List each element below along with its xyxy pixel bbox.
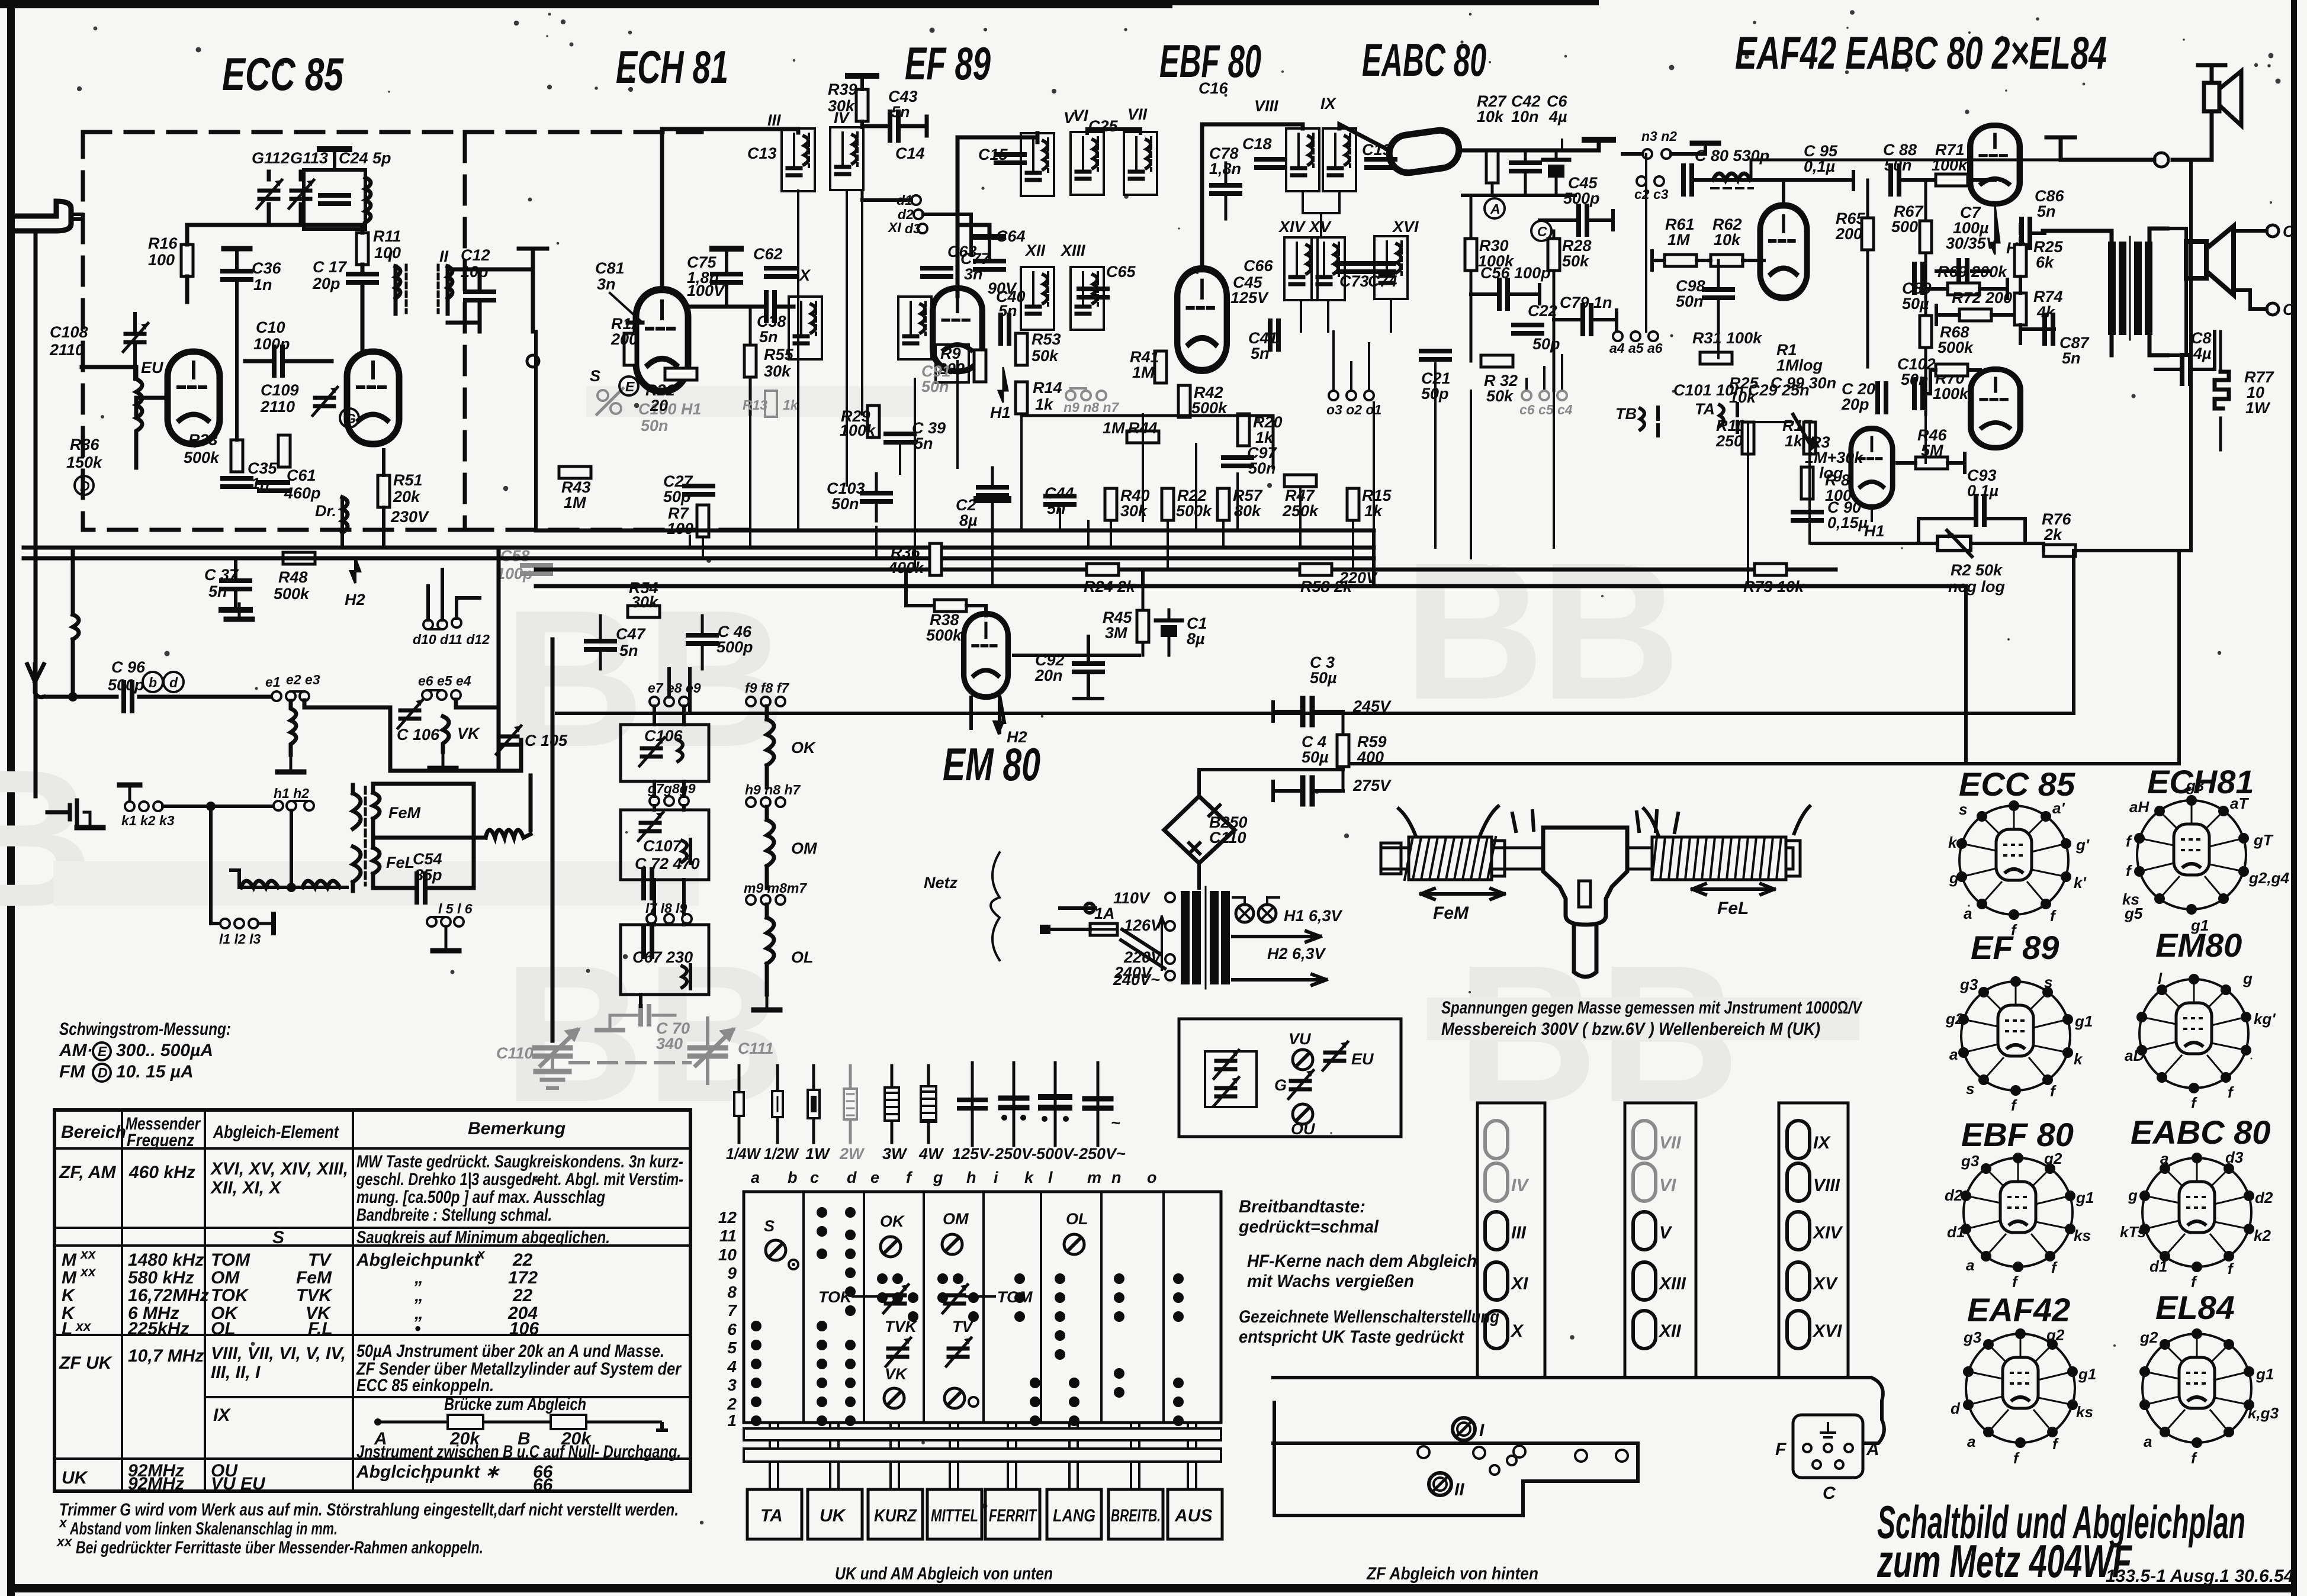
terminal C lower: [2267, 303, 2279, 315]
svg-text:C: C: [2283, 223, 2295, 240]
wire bus line3: [24, 556, 1374, 561]
resistor R16 100: [181, 244, 193, 276]
capacitor C75 1.8n feedthrough: [712, 274, 741, 282]
VU adjust box: [1179, 1019, 1401, 1137]
svg-text:UK: UK: [62, 1468, 89, 1488]
svg-text:100p: 100p: [496, 565, 533, 583]
svg-text:VIII: VIII: [1813, 1176, 1840, 1195]
legend resistor 1/2W: [776, 1066, 779, 1143]
arrow FeM: [1421, 889, 1504, 899]
svg-text:150k: 150k: [66, 453, 103, 471]
socket EL84: [2139, 1328, 2279, 1467]
svg-text:g2,g4: g2,g4: [2248, 869, 2289, 887]
svg-text:R11: R11: [373, 227, 401, 245]
svg-text:a: a: [2160, 1150, 2168, 1167]
svg-text:ks: ks: [2074, 1227, 2091, 1244]
svg-text:Brücke zum Abgleich: Brücke zum Abgleich: [444, 1395, 586, 1414]
lamp H1: [1236, 905, 1254, 922]
svg-text:g: g: [1949, 869, 1959, 887]
resistor R7 100: [697, 505, 709, 537]
svg-text:MITTEL: MITTEL: [931, 1506, 978, 1526]
svg-text:XII: XII: [1024, 242, 1046, 259]
legend capacitor 125V: [971, 1063, 974, 1145]
legend capacitor 250V: [1013, 1063, 1016, 1145]
svg-text:EU: EU: [141, 359, 164, 377]
svg-text:340: 340: [656, 1035, 683, 1053]
svg-text:C107: C107: [643, 837, 683, 855]
row numbers 12..1: [718, 1208, 738, 1430]
svg-text:2W: 2W: [839, 1145, 865, 1163]
svg-text:k1 k2 k3: k1 k2 k3: [121, 813, 175, 828]
wire input to tuner: [82, 367, 136, 379]
resistor R57 80k: [1217, 488, 1229, 520]
svg-text:Jnstrument zwischen B u.C auf: Jnstrument zwischen B u.C auf Null- Durc…: [356, 1442, 681, 1462]
legend resistor 1W: [812, 1066, 815, 1143]
svg-text:IX: IX: [1813, 1133, 1831, 1153]
capacitor C17 20p: [348, 274, 377, 282]
bank2 contact m9 m8 m7: [746, 895, 756, 905]
coil FeM on rod: [1399, 806, 1505, 880]
svg-text:mit Wachs vergießen: mit Wachs vergießen: [1247, 1272, 1414, 1291]
svg-text:OM: OM: [791, 839, 817, 857]
svg-text:OL: OL: [211, 1319, 236, 1338]
svg-text:R39: R39: [828, 81, 857, 98]
svg-text:E: E: [98, 1044, 107, 1059]
svg-text:100k: 100k: [840, 421, 876, 439]
IF can XI: [898, 297, 931, 359]
svg-text:g3: g3: [1961, 1152, 1980, 1170]
svg-text:VU EU: VU EU: [211, 1474, 266, 1494]
node C circled: [1531, 221, 1551, 241]
svg-text:250V~: 250V~: [1078, 1145, 1126, 1163]
svg-text:1M: 1M: [1667, 231, 1690, 249]
svg-text:5n: 5n: [914, 435, 933, 452]
capacitor C35 1n: [223, 478, 251, 487]
svg-text:C14: C14: [895, 144, 925, 162]
wire scribble up: [529, 776, 533, 830]
svg-text:225kHz: 225kHz: [127, 1319, 189, 1338]
svg-text:II: II: [439, 247, 449, 265]
svg-text:EAF42: EAF42: [1967, 1291, 2070, 1328]
svg-text:R73 10k: R73 10k: [1743, 578, 1805, 596]
svg-text:500p: 500p: [716, 638, 753, 656]
svg-text:g: g: [933, 1169, 943, 1186]
svg-text:g1: g1: [2255, 1365, 2274, 1383]
svg-text:TOM: TOM: [211, 1250, 250, 1270]
wire FeM loop: [373, 784, 486, 888]
svg-text:1M: 1M: [1103, 419, 1125, 437]
tube ECH81: [636, 289, 688, 391]
legend capacitor 500V: [1054, 1063, 1057, 1145]
capacitor C43 5n: [890, 112, 898, 140]
node H1 arrow: [1990, 205, 2000, 255]
svg-text:C: C: [1537, 224, 1547, 239]
coil antenna input: [73, 552, 79, 697]
svg-text:FeM: FeM: [1433, 903, 1469, 923]
transformer FeM FeL primary: [353, 785, 361, 891]
svg-text:30k: 30k: [828, 97, 856, 115]
svg-text:c6 c5 c4: c6 c5 c4: [1519, 402, 1573, 417]
svg-text:1k: 1k: [1035, 395, 1054, 413]
wire dashed top extension: [465, 130, 702, 134]
svg-text:2k: 2k: [2043, 526, 2063, 543]
svg-text:g2: g2: [1945, 1010, 1964, 1028]
svg-text:XIII: XIII: [1060, 242, 1085, 259]
contact e1 e2 e3: [272, 691, 281, 701]
svg-text:l: l: [2158, 970, 2163, 987]
svg-text:h1 h2: h1 h2: [274, 786, 309, 801]
svg-text:s: s: [1966, 1080, 1974, 1098]
capacitor C90 0.15u: [1793, 512, 1821, 520]
ground l6: [433, 935, 459, 951]
svg-text:C111: C111: [738, 1040, 774, 1057]
svg-text:C16: C16: [1199, 79, 1229, 97]
svg-text:C: C: [2283, 301, 2295, 318]
contact c2 c3: [1637, 176, 1646, 186]
svg-text:I: I: [388, 247, 393, 265]
svg-text:a: a: [1966, 1256, 1974, 1274]
svg-text:EBF 80: EBF 80: [1961, 1116, 2074, 1153]
svg-text:IX: IX: [213, 1405, 231, 1425]
svg-text:F: F: [1775, 1440, 1787, 1459]
svg-text:C12: C12: [461, 246, 490, 264]
svg-text:gT: gT: [2253, 831, 2274, 849]
svg-text:h9 h8 h7: h9 h8 h7: [745, 782, 801, 797]
svg-text:10k: 10k: [1729, 388, 1757, 406]
wire bus line1: [536, 529, 1374, 533]
svg-text:6k: 6k: [2036, 253, 2055, 271]
capacitor C27 50p: [685, 486, 713, 494]
resistor R55 30k: [744, 345, 756, 377]
svg-text:L: L: [62, 1319, 72, 1338]
trimmer EU: [1323, 1042, 1348, 1070]
node H2 arrow: [351, 558, 360, 583]
capacitor C97 50n: [1223, 458, 1252, 466]
svg-text:VK: VK: [885, 1365, 908, 1383]
bank1 box C67 230: [621, 925, 709, 995]
svg-text:e1: e1: [265, 674, 281, 690]
svg-text:3W: 3W: [882, 1145, 908, 1163]
svg-text:H1: H1: [990, 404, 1011, 421]
svg-text:500k: 500k: [274, 585, 310, 603]
svg-text:12: 12: [718, 1208, 737, 1227]
svg-text:92MHz: 92MHz: [128, 1474, 184, 1494]
switch mains: [1121, 929, 1165, 968]
ground OL: [754, 995, 780, 1010]
svg-text:1W: 1W: [805, 1145, 831, 1163]
svg-text:a: a: [1964, 905, 1972, 922]
svg-text:50µ: 50µ: [1302, 748, 1329, 766]
svg-text:geschl. Drehko 1|3 ausgedreht.: geschl. Drehko 1|3 ausgedreht. Abgl. mit…: [356, 1170, 683, 1189]
svg-text:C62: C62: [753, 245, 783, 263]
capacitor C58 100p gray: [522, 565, 551, 574]
coil L C80: [1713, 173, 1750, 180]
svg-text:C81: C81: [595, 259, 625, 277]
trimmer bottom mid: [944, 1388, 965, 1408]
resistor R32 50k: [1481, 355, 1513, 367]
wire AVC bottom: [1463, 194, 1575, 197]
svg-text:VI: VI: [1073, 107, 1088, 124]
svg-text:VII: VII: [1127, 105, 1148, 123]
svg-text:230V: 230V: [390, 508, 429, 526]
contact c6 c5 c4 gray: [1522, 391, 1567, 400]
svg-text:XIII: XIII: [1658, 1274, 1686, 1293]
coil OL: [767, 905, 774, 995]
svg-text:UK und AM Abgleich von unten: UK und AM Abgleich von unten: [835, 1564, 1053, 1584]
svg-text:ECC 85: ECC 85: [222, 48, 344, 100]
capacitor C39 5n: [886, 434, 914, 442]
output transformer: [2108, 242, 2116, 335]
trimmer C105: [496, 726, 521, 754]
contact a4 a5 a6: [1613, 332, 1622, 341]
resistor R22 500k: [1162, 488, 1174, 520]
svg-text:EABC 80: EABC 80: [2131, 1114, 2271, 1151]
svg-text:125V: 125V: [1230, 289, 1269, 307]
chassis plate: [1274, 1402, 1638, 1515]
svg-text:VU: VU: [1289, 1030, 1312, 1048]
svg-text:1M: 1M: [1132, 363, 1155, 381]
svg-text:5n: 5n: [998, 302, 1017, 320]
capacitor C37 5n: [221, 581, 250, 589]
svg-text:1Mlog: 1Mlog: [1776, 356, 1823, 374]
bank1 box C106: [621, 725, 709, 781]
tube EF89: [933, 288, 982, 371]
svg-text:TA: TA: [1695, 400, 1715, 418]
svg-text:Bereich: Bereich: [61, 1122, 126, 1142]
svg-text:″: ″: [424, 1475, 433, 1495]
capacitor C36 1n: [223, 271, 251, 279]
svg-text:R31 100k: R31 100k: [1692, 329, 1763, 347]
resistor R48 500k: [283, 552, 315, 564]
svg-text:10: 10: [718, 1246, 737, 1264]
svg-text:OL: OL: [1066, 1210, 1088, 1228]
bridge rectifier B250 C110: [1164, 796, 1235, 863]
svg-text:1n: 1n: [253, 276, 272, 294]
svg-text:R51: R51: [393, 471, 423, 489]
svg-text:I: I: [1479, 1421, 1485, 1440]
wire feedback chain: [2020, 225, 2054, 343]
svg-text:C 105: C 105: [525, 732, 568, 749]
socket ECH81: [2122, 777, 2289, 934]
svg-text:R13: R13: [743, 397, 767, 413]
svg-text:1k: 1k: [1785, 432, 1804, 450]
wire to ECH: [480, 249, 547, 332]
contact l1 l2 l3: [220, 919, 230, 928]
svg-text:Messbereich 300V ( bzw.6V ) We: Messbereich 300V ( bzw.6V ) Wellenbereic…: [1441, 1019, 1820, 1039]
svg-text:entspricht UK Taste gedrückt: entspricht UK Taste gedrückt: [1239, 1327, 1465, 1347]
svg-text:B: B: [0, 729, 94, 947]
svg-text:20: 20: [650, 397, 668, 414]
svg-text:VIII, VII, VI, V, IV,: VIII, VII, VI, V, IV,: [211, 1344, 346, 1363]
svg-text:C 80 530p: C 80 530p: [1695, 147, 1769, 165]
resistor R33 500k: [231, 440, 243, 472]
svg-text:XI: XI: [887, 220, 901, 235]
tube EBF80: [1177, 269, 1227, 371]
svg-text:5n: 5n: [208, 583, 227, 600]
capacitor C12 10p: [465, 292, 494, 300]
svg-text:C100 H1: C100 H1: [638, 400, 702, 418]
svg-text:h: h: [966, 1169, 976, 1186]
svg-text:g': g': [2075, 836, 2090, 854]
svg-text:G: G: [1274, 1076, 1287, 1094]
svg-text:4: 4: [727, 1357, 737, 1376]
svg-text:250: 250: [1715, 432, 1743, 450]
wire bus line4: [536, 568, 1836, 572]
svg-text:3: 3: [727, 1376, 737, 1394]
socket EAF42: [1951, 1326, 2096, 1467]
svg-text:R69 200k: R69 200k: [1938, 263, 2008, 281]
wire grid1: [136, 398, 168, 414]
svg-text:a: a: [751, 1169, 760, 1186]
capacitor C47 5n: [586, 641, 615, 649]
svg-text:d2: d2: [2255, 1189, 2273, 1206]
svg-text:9: 9: [727, 1264, 737, 1282]
wire bus line2: [24, 546, 1374, 550]
svg-text:ECC 85 einkoppeln.: ECC 85 einkoppeln.: [356, 1376, 494, 1395]
svg-text:50p: 50p: [1532, 335, 1560, 353]
svg-text:TVK: TVK: [296, 1286, 333, 1305]
svg-text:XVI: XVI: [1812, 1321, 1842, 1341]
bridge drawing: [378, 1421, 662, 1424]
resistor R24 2k: [1087, 564, 1119, 575]
svg-text:2110: 2110: [260, 398, 295, 416]
wire h2 down to coils: [239, 810, 347, 887]
pushbutton BREITB: [1108, 1489, 1163, 1539]
svg-text:e7 e8 e9: e7 e8 e9: [648, 680, 701, 696]
bank1 contact 17 18 19: [647, 914, 656, 924]
capacitor C54 85p: [417, 874, 425, 902]
svg-text:Abstand vom linken Skalenansch: Abstand vom linken Skalenanschlag in mm.: [69, 1519, 338, 1539]
svg-text:20p: 20p: [1841, 395, 1869, 413]
svg-text:FeM: FeM: [388, 804, 421, 822]
svg-text:c2 c3: c2 c3: [1634, 186, 1669, 202]
svg-text:LANG: LANG: [1053, 1506, 1095, 1526]
switch matrix box: [744, 1192, 1221, 1423]
svg-text:B: B: [1403, 522, 1544, 740]
svg-text:xx: xx: [79, 1264, 97, 1279]
svg-text:100k: 100k: [1933, 385, 1969, 403]
svg-text:MW Taste gedrückt. Saugkreisko: MW Taste gedrückt. Saugkreiskondens. 3n …: [356, 1152, 683, 1172]
node G circled: [340, 408, 359, 427]
svg-text:C74: C74: [1368, 272, 1397, 290]
capacitor C38 5n: [766, 292, 775, 321]
svg-text:XV: XV: [1812, 1274, 1839, 1293]
svg-text:C10: C10: [256, 318, 285, 336]
svg-text:e2 e3: e2 e3: [286, 672, 320, 687]
trimmer C110 gray: [535, 1030, 577, 1088]
svg-text:8µ: 8µ: [959, 511, 978, 529]
svg-text:4µ: 4µ: [1548, 108, 1567, 126]
tube EABC80 triode: [1851, 429, 1892, 507]
svg-text:d: d: [847, 1169, 857, 1186]
svg-text:1: 1: [727, 1411, 737, 1430]
svg-text:a: a: [1949, 1045, 1958, 1063]
svg-text:200: 200: [1835, 225, 1862, 243]
svg-text:zum Metz 404WF: zum Metz 404WF: [1877, 1535, 2132, 1587]
coil FeL secondary: [373, 848, 380, 888]
svg-text:„: „: [414, 1268, 423, 1288]
svg-text:a: a: [2144, 1433, 2152, 1450]
svg-text:g: g: [2242, 970, 2253, 987]
svg-text:IV: IV: [1511, 1176, 1530, 1195]
svg-text:C22: C22: [1528, 302, 1557, 320]
svg-text:C73: C73: [1339, 272, 1369, 290]
wire transformer primary: [2043, 229, 2167, 355]
svg-text:s: s: [2044, 973, 2052, 991]
svg-text:500k: 500k: [1938, 339, 1974, 356]
svg-text:8µ: 8µ: [1187, 630, 1205, 648]
wire speaker terminals: [2167, 229, 2267, 355]
svg-text:KURZ: KURZ: [874, 1506, 917, 1526]
svg-text:1A: 1A: [1094, 905, 1115, 922]
svg-text:66: 66: [533, 1475, 553, 1495]
svg-text:106: 106: [509, 1319, 539, 1338]
coil VK: [443, 716, 449, 752]
resistor R40 30k: [1105, 488, 1117, 520]
svg-text:R33: R33: [188, 431, 218, 449]
wire grid ECH81: [688, 305, 793, 309]
svg-text:Abgleich-Element: Abgleich-Element: [213, 1122, 340, 1142]
capacitor C1 8u: [1156, 619, 1182, 623]
svg-text:III: III: [1511, 1223, 1527, 1243]
svg-text:mung. [ca.500p ] auf max. Auss: mung. [ca.500p ] auf max. Ausschlag: [356, 1188, 605, 1207]
resistor R11 100: [356, 233, 368, 265]
svg-text:b: b: [149, 675, 157, 690]
svg-text:Schwingstrom-Messung:: Schwingstrom-Messung:: [59, 1019, 231, 1039]
svg-text:50µ: 50µ: [1902, 295, 1929, 313]
svg-text:M: M: [62, 1250, 77, 1270]
svg-text:FeL: FeL: [386, 854, 415, 871]
svg-text:•: •: [415, 1319, 421, 1338]
svg-text:V: V: [1659, 1223, 1673, 1243]
resistor R12 200: [624, 333, 636, 365]
resistor R14 1k: [1016, 382, 1027, 414]
table row lines: [54, 1147, 690, 1150]
svg-text:S: S: [272, 1228, 284, 1247]
svg-text:C79 1n: C79 1n: [1560, 294, 1612, 311]
svg-text:d3: d3: [2225, 1148, 2244, 1166]
coil coupling scribble: [486, 830, 531, 838]
tube EM80: [964, 614, 1008, 697]
svg-text:EM80: EM80: [2155, 926, 2242, 964]
svg-text:C 99 30n: C 99 30n: [1771, 374, 1836, 392]
svg-text:125V-: 125V-: [952, 1145, 994, 1163]
svg-text:VII: VII: [1659, 1133, 1681, 1153]
svg-text:D: D: [98, 1065, 108, 1080]
bank1 box C107: [621, 810, 709, 880]
svg-text:200: 200: [611, 330, 638, 348]
svg-text:30k: 30k: [631, 593, 659, 611]
svg-text:C67 230: C67 230: [632, 948, 693, 966]
pushbutton stems: [770, 1423, 1196, 1489]
svg-text:1M: 1M: [564, 494, 586, 511]
resistor R21 20: [665, 368, 697, 380]
bank1 contact e7 e8 e9: [650, 697, 659, 706]
svg-text:5n: 5n: [619, 642, 638, 659]
svg-text:XVI, XV, XIV, XIII,: XVI, XV, XIV, XIII,: [210, 1159, 348, 1179]
svg-text:Breitbandtaste:: Breitbandtaste:: [1239, 1197, 1365, 1217]
svg-text:OM: OM: [943, 1210, 969, 1228]
svg-text:H2 6,3V: H2 6,3V: [1267, 945, 1326, 963]
contact d1 d2 d3: [911, 195, 921, 205]
svg-text:20k: 20k: [393, 488, 421, 506]
svg-text:OU: OU: [1291, 1120, 1316, 1138]
wire anode supply low: [690, 551, 2179, 764]
chassis holes: [1418, 1446, 1429, 1458]
wire diode out: [1459, 141, 1599, 150]
svg-text:7: 7: [727, 1301, 737, 1320]
svg-text:5n: 5n: [759, 328, 778, 346]
